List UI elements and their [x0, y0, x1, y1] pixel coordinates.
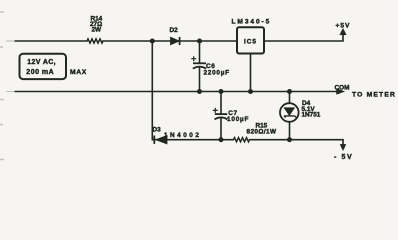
resistor R14 labels: [90, 16, 103, 34]
wire C6 branch upper: [199, 41, 201, 63]
wire C7 branch lower: [220, 118, 222, 140]
capacitor C7: [213, 108, 249, 123]
capacitor C6: [191, 56, 230, 76]
regulator IC5 (LM340-5): [232, 19, 272, 54]
wire C6 branch lower: [199, 67, 201, 91]
wire top rail left: [15, 40, 87, 42]
svg-text:12V AC,: 12V AC,: [27, 59, 56, 66]
wire D4 branch lower: [289, 122, 291, 140]
svg-text:MAX: MAX: [70, 69, 87, 76]
-5V terminal arrow: [334, 144, 353, 161]
node D4 top junction dot: [287, 89, 292, 94]
svg-text:100µF: 100µF: [227, 116, 249, 123]
COM terminal arrow: [335, 84, 397, 98]
svg-text:D2: D2: [170, 27, 179, 34]
svg-text:820Ω/1W: 820Ω/1W: [247, 129, 278, 136]
svg-text:1N751: 1N751: [302, 111, 321, 118]
wire C7 branch upper: [220, 92, 222, 114]
resistor R15 labels: [247, 122, 278, 135]
wire COM rail: [15, 91, 337, 93]
svg-text:2W: 2W: [92, 27, 103, 34]
node C6 top junction dot: [197, 39, 202, 44]
svg-text:+5V: +5V: [336, 22, 351, 29]
wire top rail mid: [103, 40, 237, 42]
node C7 bottom junction dot: [219, 137, 224, 142]
wire IC5 ground lead: [250, 54, 252, 92]
wire bottom rail: [152, 139, 233, 141]
node IC5 ground junction dot: [248, 89, 253, 94]
12V AC source box: [20, 54, 87, 79]
svg-text:- 5V: - 5V: [334, 154, 353, 161]
svg-text:2200µF: 2200µF: [204, 69, 230, 76]
svg-text:TO METER: TO METER: [352, 92, 396, 99]
svg-text:200 mA: 200 mA: [26, 69, 54, 76]
wire bottom rail right: [251, 140, 344, 145]
diode D3: [153, 126, 202, 144]
node A junction dot: [150, 39, 155, 44]
node C6 bottom junction dot: [197, 89, 202, 94]
node D4 bottom junction dot: [287, 137, 292, 142]
node C7 top junction dot: [219, 89, 224, 94]
wire vertical from node A down to bottom rail: [151, 41, 153, 140]
svg-text:LM340-5: LM340-5: [232, 19, 272, 26]
+5V terminal arrow: [336, 22, 351, 34]
zener diode D4: [280, 100, 321, 122]
svg-text:D3: D3: [153, 126, 162, 133]
resistor R14: [87, 39, 103, 43]
wire D4 branch upper: [289, 92, 291, 104]
wire IC5 output to +5V: [265, 34, 344, 42]
svg-text:1N4002: 1N4002: [164, 132, 201, 139]
svg-text:COM: COM: [335, 84, 350, 91]
resistor R15: [234, 138, 250, 142]
diode D2: [170, 27, 180, 45]
svg-text:IC5: IC5: [244, 39, 257, 46]
wire faint left-edge scan marks: [6, 40, 15, 42]
